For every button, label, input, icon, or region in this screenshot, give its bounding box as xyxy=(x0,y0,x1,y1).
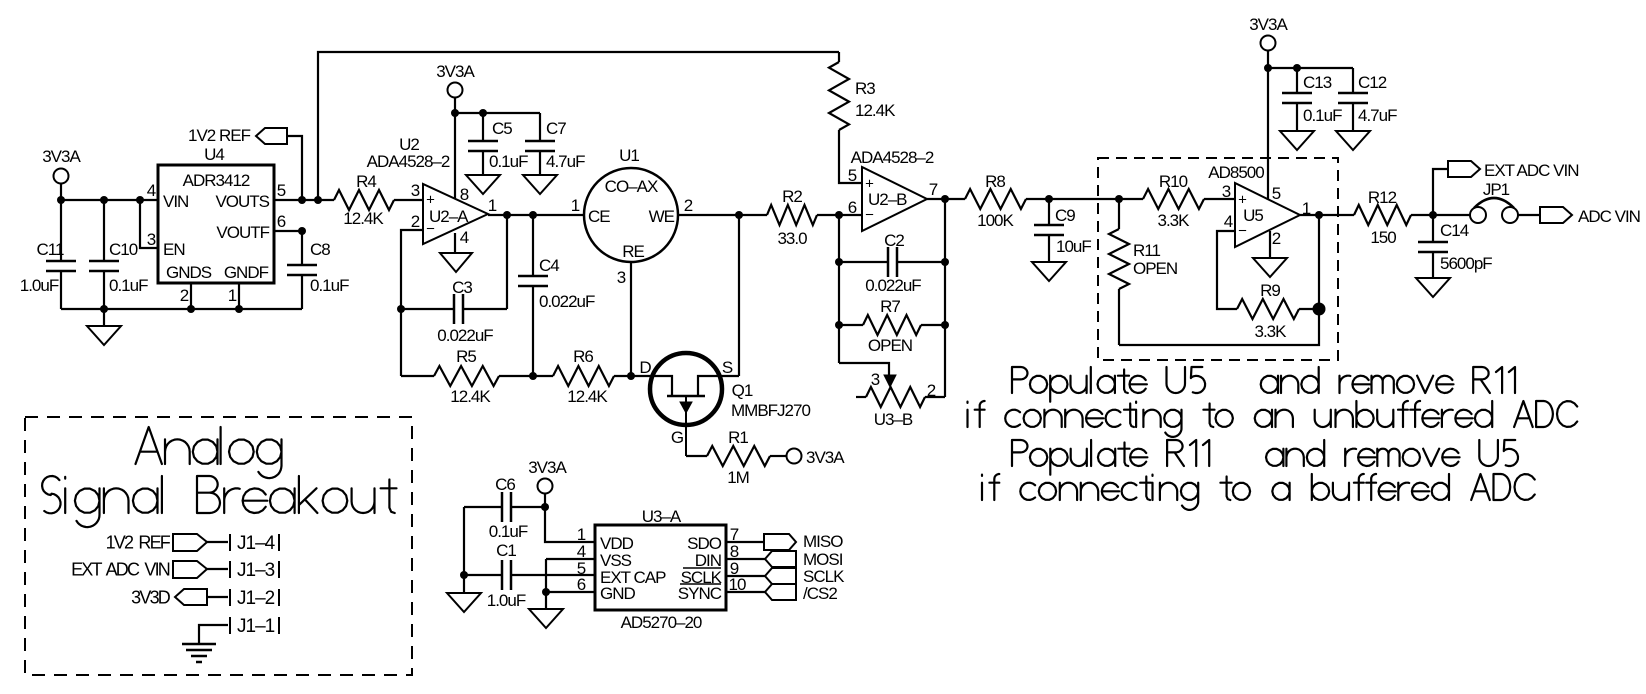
svg-text:0.1uF: 0.1uF xyxy=(489,522,528,541)
boundary box xyxy=(1098,158,1338,360)
op-amp U2-A xyxy=(367,135,488,244)
svg-text:MISO: MISO xyxy=(803,532,843,551)
svg-text:C13: C13 xyxy=(1303,73,1332,92)
svg-text:33.0: 33.0 xyxy=(777,229,807,248)
svg-text:R6: R6 xyxy=(573,347,593,366)
node xyxy=(542,588,550,596)
wire xyxy=(726,575,765,577)
svg-text:0.1uF: 0.1uF xyxy=(1303,106,1342,125)
svg-text:ADC VIN: ADC VIN xyxy=(1578,207,1640,226)
svg-text:J1–1: J1–1 xyxy=(237,616,275,637)
svg-text:C11: C11 xyxy=(37,240,64,259)
jumper JP1 xyxy=(1470,180,1518,223)
svg-text:3.3K: 3.3K xyxy=(1255,322,1288,341)
flag 3V3D xyxy=(131,587,207,607)
node xyxy=(627,372,635,380)
wire xyxy=(199,625,228,644)
svg-text:100K: 100K xyxy=(977,211,1014,230)
ground xyxy=(87,309,121,345)
svg-text:12.4K: 12.4K xyxy=(567,387,608,406)
svg-text:12.4K: 12.4K xyxy=(450,387,491,406)
svg-text:AD5270–20: AD5270–20 xyxy=(621,613,702,632)
resistor R3 xyxy=(829,52,896,183)
ground xyxy=(440,253,472,272)
wire xyxy=(545,559,547,592)
title text xyxy=(42,427,396,527)
wire xyxy=(838,215,840,363)
svg-text:J1–4: J1–4 xyxy=(237,533,276,554)
svg-text:C7: C7 xyxy=(546,119,566,138)
svg-text:4: 4 xyxy=(1224,212,1233,231)
flag ADC VIN xyxy=(1540,207,1640,226)
svg-text:2: 2 xyxy=(180,286,189,305)
node xyxy=(460,571,468,579)
wire xyxy=(726,558,765,560)
wire xyxy=(61,199,158,201)
pin 7 xyxy=(730,525,739,544)
svg-text:0.022uF: 0.022uF xyxy=(865,276,921,295)
svg-text:3V3A: 3V3A xyxy=(806,448,845,467)
svg-text:12.4K: 12.4K xyxy=(343,209,384,228)
svg-text:ADR3412: ADR3412 xyxy=(183,171,250,190)
wire xyxy=(394,199,423,201)
pin 7 xyxy=(929,180,938,199)
node xyxy=(235,305,243,313)
earth ground xyxy=(182,644,216,662)
svg-text:OPEN: OPEN xyxy=(868,336,912,355)
ground xyxy=(1253,258,1287,277)
transistor Q1 xyxy=(639,353,810,456)
svg-text:RE: RE xyxy=(622,242,644,261)
node xyxy=(941,321,949,329)
capacitor C2 xyxy=(839,231,945,295)
note text xyxy=(968,367,1578,510)
svg-text:C1: C1 xyxy=(496,541,516,560)
wire xyxy=(238,283,240,309)
svg-text:3.3K: 3.3K xyxy=(1158,211,1191,230)
wire xyxy=(545,507,595,542)
wire xyxy=(1119,309,1319,345)
svg-text:3: 3 xyxy=(411,181,420,200)
svg-text:2: 2 xyxy=(684,196,693,215)
node xyxy=(1429,211,1437,219)
pin 2 xyxy=(1272,229,1281,248)
capacitor C13 xyxy=(1282,68,1342,131)
svg-text:U3–A: U3–A xyxy=(642,507,682,526)
node xyxy=(314,196,322,204)
svg-text:0.022uF: 0.022uF xyxy=(539,292,595,311)
svg-text:6: 6 xyxy=(277,212,286,231)
node xyxy=(529,211,537,219)
connector J1-4 xyxy=(230,533,279,554)
wire xyxy=(1268,67,1353,69)
svg-text:C8: C8 xyxy=(310,240,330,259)
pin 5 xyxy=(577,559,586,578)
flag 1V2 REF xyxy=(188,126,287,145)
flag EXT ADC VIN xyxy=(1448,161,1579,180)
power 3V3A xyxy=(528,458,567,493)
pin 4 xyxy=(1224,212,1233,231)
svg-text:U2–A: U2–A xyxy=(429,207,469,226)
capacitor C12 xyxy=(1338,68,1397,131)
svg-text:VIN: VIN xyxy=(163,192,188,211)
svg-text:U3–B: U3–B xyxy=(874,410,913,429)
wire xyxy=(1318,215,1320,309)
rheostat U3-B xyxy=(839,363,945,429)
flag EXT ADC VIN xyxy=(71,559,207,579)
wire xyxy=(61,308,302,310)
flag MISO xyxy=(764,532,843,551)
resistor R5 xyxy=(401,347,533,406)
pin 5 xyxy=(1272,184,1281,203)
pin 2 xyxy=(180,286,189,305)
ground xyxy=(1032,262,1066,281)
svg-text:3: 3 xyxy=(147,230,156,249)
power 3V3A xyxy=(436,62,475,97)
svg-text:0.022uF: 0.022uF xyxy=(437,326,493,345)
svg-text:R4: R4 xyxy=(356,172,376,191)
pin 4 xyxy=(147,181,156,200)
svg-text:8: 8 xyxy=(460,185,469,204)
power 3V3A xyxy=(1249,15,1288,50)
wire xyxy=(630,262,632,376)
svg-text:5600pF: 5600pF xyxy=(1440,254,1492,273)
resistor R9 xyxy=(1237,281,1319,341)
svg-text:1: 1 xyxy=(228,286,237,305)
svg-text:0.1uF: 0.1uF xyxy=(489,152,528,171)
pin 2 xyxy=(684,196,693,215)
sensor U1 xyxy=(584,146,678,262)
node xyxy=(298,196,306,204)
node xyxy=(187,305,195,313)
svg-text:2: 2 xyxy=(1272,229,1281,248)
capacitor C10 xyxy=(89,200,148,309)
pin 6 xyxy=(848,198,857,217)
svg-text:1.0uF: 1.0uF xyxy=(20,276,59,295)
wire xyxy=(1269,231,1271,258)
pin 10 xyxy=(729,575,746,594)
capacitor C9 xyxy=(1034,199,1091,262)
svg-text:1V2 REF: 1V2 REF xyxy=(188,126,251,145)
svg-text:4: 4 xyxy=(460,228,469,247)
node xyxy=(1045,195,1053,203)
resistor R11 xyxy=(1109,199,1177,345)
capacitor C11 xyxy=(20,200,76,309)
pin 5 xyxy=(848,166,857,185)
svg-text:G: G xyxy=(671,428,683,447)
capacitor C14 xyxy=(1418,215,1492,278)
wire xyxy=(631,375,652,377)
svg-text:3V3A: 3V3A xyxy=(42,147,81,166)
wire xyxy=(455,112,540,114)
connector J1-1 xyxy=(230,616,279,637)
wire xyxy=(944,199,946,397)
svg-text:C2: C2 xyxy=(884,231,904,250)
flag /CS2 xyxy=(765,584,837,603)
svg-text:3: 3 xyxy=(1222,182,1231,201)
svg-text:10uF: 10uF xyxy=(1056,237,1091,256)
connector J1-2 xyxy=(230,588,279,609)
svg-text:GNDF: GNDF xyxy=(224,263,269,282)
svg-text:3: 3 xyxy=(617,268,626,287)
node xyxy=(136,196,144,204)
svg-text:ADA4528–2: ADA4528–2 xyxy=(367,152,450,171)
node xyxy=(735,211,743,219)
svg-text:4.7uF: 4.7uF xyxy=(1358,106,1397,125)
node xyxy=(479,109,487,117)
svg-text:C10: C10 xyxy=(109,240,138,259)
svg-text:J1–2: J1–2 xyxy=(237,588,275,609)
svg-text:5: 5 xyxy=(848,166,857,185)
wire xyxy=(544,494,546,507)
wire xyxy=(60,184,62,200)
svg-text:C14: C14 xyxy=(1440,221,1469,240)
svg-text:J1–3: J1–3 xyxy=(237,560,275,581)
wire xyxy=(287,136,302,200)
svg-text:R2: R2 xyxy=(782,187,802,206)
node xyxy=(835,321,843,329)
flag SCLK xyxy=(765,567,845,586)
node xyxy=(941,195,949,203)
pin 3 xyxy=(147,230,156,249)
wire xyxy=(454,98,456,199)
capacitor C3 xyxy=(401,278,507,345)
node xyxy=(1264,64,1272,72)
svg-text:C3: C3 xyxy=(452,278,472,297)
svg-text:R10: R10 xyxy=(1159,172,1188,191)
svg-text:3V3A: 3V3A xyxy=(528,458,567,477)
svg-text:CO–AX: CO–AX xyxy=(605,177,658,196)
flag 1V2 REF xyxy=(106,532,207,552)
node xyxy=(1315,211,1323,219)
svg-text:/CS2: /CS2 xyxy=(803,584,837,603)
svg-text:SYNC: SYNC xyxy=(678,584,722,603)
resistor R12 xyxy=(1354,188,1470,247)
svg-text:GNDS: GNDS xyxy=(166,263,212,282)
pin 1 xyxy=(571,196,580,215)
resistor R4 xyxy=(334,172,394,228)
pin 2 xyxy=(411,212,420,231)
wire xyxy=(488,214,584,216)
svg-text:4: 4 xyxy=(147,181,156,200)
svg-text:R11: R11 xyxy=(1133,241,1160,260)
pin 6 xyxy=(577,575,586,594)
svg-text:R5: R5 xyxy=(456,347,476,366)
pin 8 xyxy=(460,185,469,204)
svg-text:4.7uF: 4.7uF xyxy=(546,152,585,171)
node xyxy=(451,109,459,117)
svg-text:R7: R7 xyxy=(880,297,900,316)
wire xyxy=(720,375,739,377)
wire xyxy=(454,233,456,253)
svg-text:3V3A: 3V3A xyxy=(1249,15,1288,34)
wire xyxy=(1300,214,1354,216)
node xyxy=(100,196,108,204)
svg-text:JP1: JP1 xyxy=(1483,180,1510,199)
svg-text:EXT ADC VIN: EXT ADC VIN xyxy=(71,559,170,579)
svg-text:5: 5 xyxy=(277,181,286,200)
svg-text:R9: R9 xyxy=(1260,281,1280,300)
svg-text:5: 5 xyxy=(1272,184,1281,203)
node xyxy=(1313,303,1326,316)
svg-text:12.4K: 12.4K xyxy=(855,101,896,120)
svg-text:1: 1 xyxy=(571,196,580,215)
wire xyxy=(506,215,508,309)
svg-text:U4: U4 xyxy=(204,145,224,164)
svg-text:C9: C9 xyxy=(1055,206,1075,225)
svg-text:WE: WE xyxy=(649,207,675,226)
svg-text:MMBFJ270: MMBFJ270 xyxy=(731,401,810,420)
pin 4 xyxy=(577,542,586,561)
svg-text:1: 1 xyxy=(488,196,497,215)
pin 1 xyxy=(1302,199,1311,218)
svg-text:VOUTS: VOUTS xyxy=(215,192,269,211)
pin 4 xyxy=(460,228,469,247)
wire xyxy=(546,558,595,560)
node xyxy=(941,258,949,266)
wire xyxy=(726,591,765,593)
capacitor C6 xyxy=(464,475,545,541)
ground xyxy=(447,593,481,612)
ground xyxy=(529,592,563,628)
svg-text:C6: C6 xyxy=(495,475,515,494)
node xyxy=(397,305,405,313)
wire xyxy=(738,215,740,376)
wire xyxy=(207,596,228,598)
svg-text:ADA4528–2: ADA4528–2 xyxy=(851,148,934,167)
ground xyxy=(523,175,557,194)
pin 3 xyxy=(1222,182,1231,201)
wire xyxy=(140,200,158,248)
svg-text:3V3A: 3V3A xyxy=(436,62,475,81)
svg-text:R12: R12 xyxy=(1368,188,1397,207)
svg-text:3: 3 xyxy=(871,370,880,389)
svg-text:0.1uF: 0.1uF xyxy=(109,276,148,295)
wire xyxy=(274,230,302,232)
svg-text:R8: R8 xyxy=(985,172,1005,191)
wire xyxy=(401,230,423,376)
svg-text:R1: R1 xyxy=(728,428,748,447)
wire xyxy=(190,283,192,309)
resistor R7 xyxy=(839,297,945,355)
svg-text:U2–B: U2–B xyxy=(868,190,907,209)
svg-text:6: 6 xyxy=(577,575,586,594)
svg-text:OPEN: OPEN xyxy=(1133,259,1177,278)
resistor R10 xyxy=(1119,172,1235,230)
connector J1-3 xyxy=(230,560,279,581)
wire xyxy=(546,591,595,593)
pin 1 xyxy=(488,196,497,215)
capacitor C7 xyxy=(525,113,585,175)
wire xyxy=(207,541,228,543)
svg-text:150: 150 xyxy=(1370,228,1396,247)
svg-text:U5: U5 xyxy=(1243,206,1263,225)
pin 3 xyxy=(411,181,420,200)
ground xyxy=(1416,278,1450,297)
power 3V3A xyxy=(787,448,846,467)
resistor R6 xyxy=(533,347,631,406)
wire xyxy=(1267,51,1269,200)
svg-text:VOUTF: VOUTF xyxy=(216,223,269,242)
wire xyxy=(1217,231,1237,309)
op-amp U2-B xyxy=(851,148,934,231)
ground xyxy=(1336,131,1370,150)
svg-text:2: 2 xyxy=(927,381,936,400)
svg-text:C12: C12 xyxy=(1358,73,1387,92)
wire xyxy=(1433,169,1448,215)
pin 1 xyxy=(577,525,586,544)
ground xyxy=(466,175,500,194)
pin 8 xyxy=(730,542,739,561)
node xyxy=(57,196,65,204)
node xyxy=(298,227,306,235)
regulator U4 xyxy=(158,145,274,283)
svg-text:Q1: Q1 xyxy=(732,381,753,400)
svg-text:S: S xyxy=(722,358,733,377)
node xyxy=(1115,195,1123,203)
wire xyxy=(1518,214,1540,216)
pin 3 xyxy=(617,268,626,287)
node xyxy=(100,305,108,313)
wire xyxy=(678,214,767,216)
svg-text:AD8500: AD8500 xyxy=(1208,163,1264,182)
node xyxy=(529,372,537,380)
svg-text:1.0uF: 1.0uF xyxy=(487,591,526,610)
svg-text:EN: EN xyxy=(163,240,185,259)
pin 9 xyxy=(730,559,739,578)
svg-text:3V3D: 3V3D xyxy=(131,587,171,607)
svg-text:2: 2 xyxy=(411,212,420,231)
wire xyxy=(463,507,465,593)
svg-text:D: D xyxy=(639,358,651,377)
svg-text:0.1uF: 0.1uF xyxy=(310,276,349,295)
op-amp U5 xyxy=(1208,163,1300,247)
wire xyxy=(207,568,228,570)
node xyxy=(1293,64,1301,72)
node xyxy=(835,211,843,219)
svg-text:GND: GND xyxy=(600,584,636,603)
capacitor C8 xyxy=(287,231,349,309)
pin 5 xyxy=(277,181,286,200)
capacitor C5 xyxy=(468,113,528,175)
svg-text:CE: CE xyxy=(588,207,610,226)
wire xyxy=(927,198,965,200)
ground xyxy=(1280,131,1314,150)
svg-text:6: 6 xyxy=(848,198,857,217)
capacitor C1 xyxy=(464,541,595,610)
svg-text:+: + xyxy=(426,191,435,208)
svg-text:1V2 REF: 1V2 REF xyxy=(106,532,171,552)
resistor R8 xyxy=(965,172,1119,230)
pin 6 xyxy=(277,212,286,231)
svg-text:7: 7 xyxy=(929,180,938,199)
node xyxy=(503,211,511,219)
svg-text:U1: U1 xyxy=(619,146,639,165)
resistor R2 xyxy=(767,187,862,248)
wire xyxy=(726,541,764,543)
svg-text:R3: R3 xyxy=(855,79,875,98)
digipot U3-A xyxy=(595,507,726,632)
pin 1 xyxy=(228,286,237,305)
boundary box xyxy=(25,417,412,675)
capacitor C4 xyxy=(518,215,595,376)
svg-text:EXT ADC VIN: EXT ADC VIN xyxy=(1484,161,1579,180)
node xyxy=(541,503,549,511)
svg-text:1M: 1M xyxy=(727,468,749,487)
power 3V3A xyxy=(42,147,81,183)
svg-text:C5: C5 xyxy=(492,119,512,138)
resistor R1 xyxy=(686,428,786,487)
